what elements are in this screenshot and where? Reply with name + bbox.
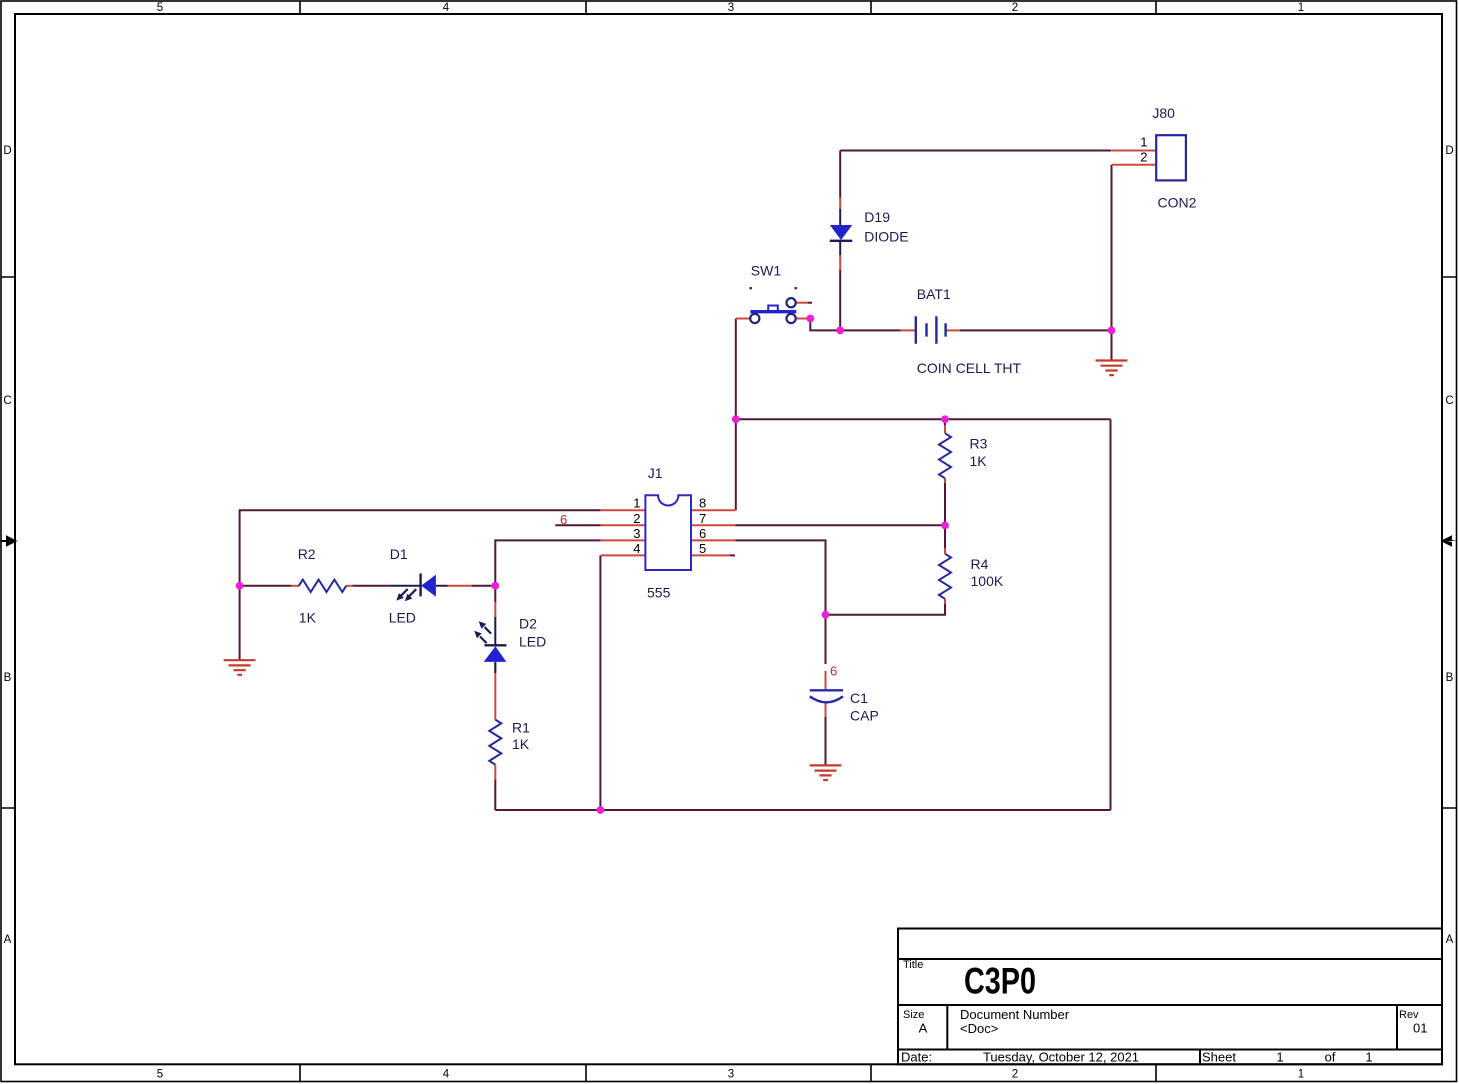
pin lead R3 top [944, 425, 946, 433]
svg-text:4: 4 [443, 1069, 450, 1081]
wire J80 pin2 vertical down [1111, 165, 1113, 331]
junction D19/BAT [836, 327, 844, 335]
svg-text:1: 1 [1276, 1050, 1283, 1065]
pin lead R1 bottom [494, 765, 496, 780]
pin lead SW1 right [796, 318, 811, 320]
zone arrows [1, 535, 18, 546]
pin lead R2 right [346, 585, 353, 587]
wire J80 pin1 net top horizontal [840, 150, 1111, 152]
svg-text:7: 7 [699, 511, 706, 526]
wire pin4 corner down to bottom rail [599, 555, 601, 810]
junction D1/D2/pin3 [491, 582, 499, 590]
pin lead J1 pin3 [601, 539, 646, 541]
wire junction to R4 top [944, 525, 946, 549]
wire R3 bottom to pin7 junction [944, 482, 946, 525]
svg-text:1K: 1K [512, 736, 530, 752]
svg-text:6: 6 [699, 526, 706, 541]
svg-text:2: 2 [633, 511, 640, 526]
svg-text:D: D [1445, 145, 1453, 157]
pin lead R4 bottom [944, 599, 946, 604]
wire left junction down to GND1 [239, 586, 241, 660]
svg-text:1: 1 [1298, 2, 1304, 14]
wire D1 right to junction [471, 585, 495, 587]
svg-text:Date:: Date: [901, 1050, 932, 1065]
svg-text:D1: D1 [390, 546, 408, 562]
junction pin6/C1 [822, 611, 830, 619]
pin lead J1 pin4 [601, 554, 646, 556]
wire BAT1 right to ground junction [960, 329, 1112, 331]
svg-text:Tuesday, October 12, 2021: Tuesday, October 12, 2021 [983, 1050, 1139, 1065]
svg-text:Document Number: Document Number [960, 1007, 1070, 1022]
svg-text:C: C [3, 395, 11, 407]
svg-text:B: B [4, 672, 12, 684]
svg-text:DIODE: DIODE [864, 228, 908, 244]
wire pin6 over and down [736, 540, 826, 614]
ground GND1 (left of R2) [224, 660, 256, 675]
svg-text:2: 2 [1012, 2, 1018, 14]
pin lead J80 pin1 [1112, 150, 1156, 152]
wire right vertical rail [1110, 419, 1112, 810]
svg-text:Sheet: Sheet [1202, 1050, 1236, 1065]
wire R3 top from rail [944, 419, 946, 426]
wire VCC rail horizontal [736, 418, 1111, 420]
junction SW1 right [806, 315, 814, 323]
wire bottom rail [495, 809, 1110, 811]
svg-text:2: 2 [1012, 1069, 1018, 1081]
pin lead J1 pin1 [601, 509, 646, 511]
ground GND3 (C1) [810, 765, 842, 780]
pin lead C1 bottom [825, 703, 827, 717]
svg-text:6: 6 [830, 664, 837, 679]
svg-text:R3: R3 [970, 436, 988, 452]
pin lead D19 top [839, 197, 841, 210]
resistor R2 [299, 580, 346, 592]
LED D2 [474, 617, 506, 673]
wire SW1 left pin down to rail [735, 319, 737, 420]
pin lead R2 left [291, 585, 299, 587]
wire pin7 to junction [736, 524, 946, 526]
svg-text:1K: 1K [299, 610, 317, 626]
svg-text:3: 3 [728, 2, 734, 14]
svg-text:C3P0: C3P0 [964, 960, 1036, 1002]
wire BAT1 left [840, 329, 901, 331]
svg-text:8: 8 [699, 496, 706, 511]
wire junction up to pin3 [495, 540, 600, 585]
pin lead J1 pin6 [691, 539, 736, 541]
pin lead SW1 NC stub [796, 302, 808, 304]
svg-text:D19: D19 [864, 209, 890, 225]
pin lead D2 top [494, 602, 496, 618]
junction pin7/R3/R4 [941, 522, 949, 530]
pin lead J80 pin2 [1112, 164, 1156, 166]
svg-text:of: of [1325, 1050, 1336, 1065]
pin lead J1 pin5 stub [691, 554, 730, 556]
pin lead J1 pin8 [691, 509, 736, 511]
pin lead J1 pin7 [691, 524, 736, 526]
svg-text:CAP: CAP [850, 707, 879, 723]
wire left junction to R2 [240, 585, 292, 587]
svg-text:100K: 100K [971, 573, 1004, 589]
svg-text:LED: LED [519, 633, 546, 649]
pin lead SW1 left [736, 318, 751, 320]
switch SW1 [750, 287, 797, 323]
capacitor C1 [810, 690, 843, 702]
wire D19 anode up segment [839, 151, 841, 199]
resistor R4 [939, 554, 951, 599]
pin lead BAT1 right [946, 329, 960, 331]
wire junction to ground GND2 [1111, 330, 1113, 360]
pin lead R3 bottom [944, 478, 946, 483]
ground GND2 (battery) [1096, 361, 1128, 376]
wire C1 junction down [825, 615, 827, 664]
svg-text:6: 6 [560, 512, 567, 527]
svg-text:4: 4 [633, 541, 640, 556]
pin lead D1 right [448, 585, 473, 587]
svg-text:2: 2 [1140, 150, 1147, 165]
svg-text:1: 1 [1298, 1069, 1304, 1081]
svg-text:R2: R2 [298, 546, 316, 562]
wire D19 cathode down segment [839, 269, 841, 330]
junction bottom rail [597, 806, 605, 814]
svg-text:D2: D2 [519, 615, 537, 631]
resistor R1 [489, 720, 501, 765]
svg-text:B: B [1446, 672, 1454, 684]
svg-text:<Doc>: <Doc> [960, 1021, 998, 1036]
wire R2 right to D1 [352, 585, 391, 587]
wire pin1 long net to left [240, 510, 601, 586]
pin lead D2 bottom / R1 top [494, 663, 496, 720]
op IC J1 555 body [645, 495, 691, 570]
pin lead J1 pin2 [601, 524, 646, 526]
svg-text:C1: C1 [850, 690, 868, 706]
wire rail down to pin8 [735, 419, 737, 510]
junction rail R3 [941, 415, 949, 423]
svg-text:D: D [3, 145, 11, 157]
title block [898, 929, 1442, 1065]
svg-text:4: 4 [443, 2, 450, 14]
wire SW1 NC stub end tick [808, 302, 813, 304]
svg-text:01: 01 [1413, 1021, 1427, 1036]
pin lead D19 bottom [839, 254, 841, 270]
svg-text:C: C [1445, 395, 1453, 407]
pin lead C1 top [825, 671, 827, 689]
svg-text:555: 555 [647, 585, 671, 601]
junction BAT/GND [1108, 327, 1116, 335]
battery BAT1 [916, 316, 946, 344]
LED D1 [391, 574, 448, 602]
wire pin2 net stub [555, 524, 600, 526]
resistor R3 [939, 433, 951, 478]
svg-text:R4: R4 [971, 556, 989, 572]
svg-text:R1: R1 [512, 720, 530, 736]
svg-text:J80: J80 [1152, 105, 1175, 121]
connector J80 [1156, 135, 1186, 180]
svg-text:LED: LED [389, 610, 416, 626]
svg-text:5: 5 [699, 541, 706, 556]
svg-text:3: 3 [728, 1069, 734, 1081]
junction R2 left [236, 582, 244, 590]
svg-text:5: 5 [157, 1069, 163, 1081]
svg-text:A: A [919, 1021, 928, 1036]
svg-text:Title: Title [903, 959, 923, 971]
wire R4 bottom corner to C1 junction [826, 603, 946, 615]
junction rail left [732, 415, 740, 423]
wire C1 bottom to GND3 [825, 716, 827, 765]
svg-text:SW1: SW1 [751, 262, 782, 278]
pin lead BAT1 left [901, 329, 916, 331]
svg-text:Rev: Rev [1399, 1009, 1419, 1021]
wire R1 bottom to bottom rail [494, 779, 496, 810]
svg-text:BAT1: BAT1 [917, 286, 951, 302]
svg-text:1: 1 [1140, 135, 1147, 150]
svg-text:1: 1 [1365, 1050, 1372, 1065]
svg-text:CON2: CON2 [1158, 194, 1197, 210]
svg-text:A: A [1446, 934, 1454, 946]
svg-text:Size: Size [903, 1009, 924, 1021]
wire pin5 end tick [730, 554, 736, 556]
wire SW1 right pin to BAT junction [810, 319, 840, 331]
svg-text:5: 5 [157, 2, 163, 14]
svg-text:COIN CELL THT: COIN CELL THT [917, 360, 1022, 376]
pin lead R4 top [944, 548, 946, 554]
wire junction down to D2 [494, 586, 496, 603]
svg-text:1: 1 [633, 496, 640, 511]
diode D19 [830, 209, 853, 255]
svg-text:3: 3 [633, 526, 640, 541]
svg-text:A: A [4, 934, 12, 946]
svg-text:1K: 1K [970, 453, 988, 469]
svg-text:J1: J1 [648, 465, 663, 481]
